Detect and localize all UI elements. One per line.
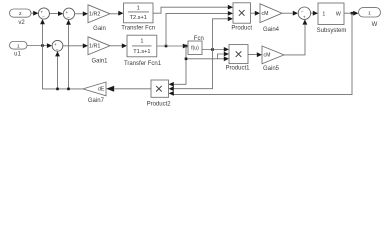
svg-text:cM: cM [264, 53, 271, 59]
sum4 [298, 7, 310, 20]
gain cM (Gain4) [260, 4, 282, 23]
svg-text:Transfer Fcn: Transfer Fcn [121, 25, 155, 31]
gain cM (Gain5) [262, 46, 284, 64]
svg-text:Gain4: Gain4 [263, 27, 280, 33]
wire sum3 to Gain1 [63, 45, 84, 47]
svg-text:1/R1: 1/R1 [89, 44, 100, 50]
wire Product to Gain4 [251, 12, 256, 14]
junction dot at 186,58.8 [185, 58, 188, 61]
transfer fcn1 1/(T1.s+1) [127, 35, 157, 57]
branch wire down x212 to Product2 input 2 [173, 50, 213, 89]
product1 (Product1) [229, 45, 248, 64]
svg-text:Product: Product [231, 26, 252, 32]
svg-text:Product1: Product1 [225, 65, 250, 71]
branch up x68.5 to sum2 bottom [68, 24, 70, 89]
svg-text:Gain7: Gain7 [88, 98, 105, 104]
wire sum1 to sum2 [50, 13, 60, 15]
svg-text:1: 1 [140, 39, 143, 45]
gain 1/R2 (Gain) [88, 5, 110, 23]
wire Subsystem to outport [344, 12, 354, 14]
branch wire up x212 to Product input 3 [213, 19, 229, 50]
product2 (Product2) [151, 80, 169, 97]
svg-text:T2.s+1: T2.s+1 [130, 15, 147, 21]
wire sum4 to Subsystem [311, 12, 314, 14]
wire u1 to sum3 [27, 45, 48, 47]
junction dot after Subsystem [351, 12, 354, 15]
wire v2 to sum1 [31, 12, 34, 14]
transfer fcn 1/(T2.s+1) [124, 3, 154, 23]
svg-text:cM: cM [262, 11, 269, 17]
wire Gain to Transfer Fcn [110, 13, 119, 15]
junction dot f(u) out [211, 48, 214, 51]
wire Product1 to Gain5 [248, 53, 258, 55]
stub wire up to Product1 input 2 [218, 54, 225, 59]
svg-text:u1: u1 [14, 51, 21, 57]
junction dot at x166 [165, 45, 168, 48]
wire Product2 output to Gain7 [115, 88, 152, 90]
wire Transfer Fcn1 to Fcn [157, 45, 184, 47]
svg-text:2: 2 [19, 11, 22, 17]
svg-text:T1.s+1: T1.s+1 [133, 49, 150, 55]
wire Gain4 to sum4 [282, 12, 294, 14]
sum3 [52, 40, 63, 51]
product (Product) [233, 3, 251, 23]
wire f(u) output to Product1 input 1 [202, 49, 225, 51]
svg-text:1: 1 [17, 43, 20, 49]
feedback wire from Subsystem junction down and left to Product2 input 3 [173, 13, 352, 94]
wire from x186 branch to Product1 input 3 [186, 58, 225, 60]
sum1 [38, 8, 49, 20]
inport 1 (u1) [10, 42, 28, 50]
svg-text:v2: v2 [18, 20, 25, 26]
svg-text:1: 1 [368, 10, 371, 16]
wire sum2 to Gain [75, 13, 84, 15]
svg-text:W: W [372, 22, 378, 28]
gain 1/R1 (Gain1) [88, 37, 110, 55]
svg-text:1: 1 [322, 11, 325, 17]
junction dot at x186 [185, 45, 188, 48]
svg-text:1/R2: 1/R2 [89, 12, 100, 18]
svg-text:−: − [42, 15, 45, 20]
svg-text:f(u): f(u) [191, 46, 199, 52]
junction dot at 57.5,88.9 [56, 88, 59, 91]
wire Gain1 to Transfer Fcn1 [110, 45, 123, 47]
svg-text:Transfer Fcn1: Transfer Fcn1 [124, 61, 162, 67]
junction dot on u1 wire [41, 44, 44, 47]
wire Transfer Fcn up-over to Product input 1 [153, 7, 229, 13]
branch up x57 to sum3 bottom [57, 56, 59, 89]
svg-text:1: 1 [137, 6, 140, 12]
wire Gain5 up to sum4 bottom input [284, 25, 305, 55]
svg-text:Product2: Product2 [147, 101, 172, 107]
svg-text:+: + [303, 15, 306, 20]
inport 2 (v2) [10, 9, 32, 17]
svg-text:−: − [67, 15, 70, 20]
svg-text:Gain: Gain [93, 26, 106, 32]
fcn f(u) [188, 41, 202, 55]
svg-text:dE: dE [98, 87, 105, 93]
svg-text:Gain5: Gain5 [263, 66, 280, 72]
svg-text:−: − [56, 47, 59, 52]
gain dE (Gain7, pointing left) [83, 82, 106, 96]
svg-text:Subsystem: Subsystem [317, 28, 347, 34]
outport 1 (W) [359, 8, 381, 17]
svg-text:Gain1: Gain1 [91, 58, 108, 64]
junction dot at 68.5,88.9 [67, 88, 70, 91]
feedback wire dE output left and up to sum1 [43, 24, 84, 89]
sum2 [63, 8, 74, 20]
svg-text:W: W [336, 11, 341, 17]
branch wire up to Product input 2 [166, 13, 229, 46]
subsystem [318, 3, 344, 25]
branch wire down x186 to Product2 input 1 [173, 46, 186, 84]
